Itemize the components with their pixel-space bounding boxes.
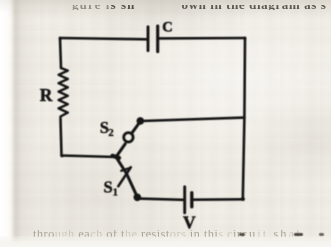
svg-text:R: R <box>40 85 53 105</box>
svg-text:C: C <box>162 20 172 36</box>
svg-text:S: S <box>104 177 113 196</box>
svg-text:2: 2 <box>108 127 114 139</box>
svg-text:1: 1 <box>113 186 119 198</box>
svg-text:V: V <box>183 213 196 233</box>
